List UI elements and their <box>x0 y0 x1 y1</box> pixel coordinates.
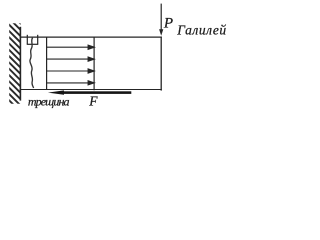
svg-text:F: F <box>88 93 98 108</box>
svg-text:трещина: трещина <box>28 94 70 108</box>
svg-text:P: P <box>163 16 173 32</box>
svg-text:Галилей: Галилей <box>176 22 227 37</box>
